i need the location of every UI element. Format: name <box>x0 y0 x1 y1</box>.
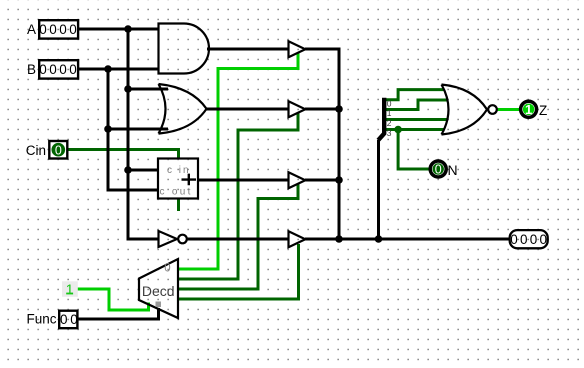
wire splitter bit2 to NOR input3 <box>384 118 448 121</box>
junction OR1/x128 <box>124 85 132 93</box>
wire OR input1 <box>128 88 168 91</box>
svg-text:A: A <box>27 22 36 37</box>
wire constant 1 to decoder enable (bright green) <box>77 289 149 310</box>
junction OR2/x108 <box>104 125 112 133</box>
svg-text:Decd: Decd <box>142 283 175 299</box>
svg-text:N: N <box>448 162 458 178</box>
output pin result <box>510 230 548 248</box>
wire buffer3 output <box>305 179 339 182</box>
svg-text:c in: c in <box>167 165 191 176</box>
wire splitter bit1 to NOR input2 <box>384 100 448 110</box>
wire OR input2 <box>108 128 168 131</box>
decoder select marker <box>156 302 162 308</box>
wire splitter bit3 to NOR input4 <box>384 128 444 131</box>
controlled buffer B1 <box>289 41 306 57</box>
junction adder1/x128 <box>124 166 132 174</box>
controlled buffer B3 <box>289 172 306 188</box>
svg-text:0: 0 <box>55 144 62 158</box>
controlled buffer B2 <box>289 101 306 117</box>
or-gate U2 <box>159 84 207 134</box>
input pin Cin <box>49 141 67 159</box>
junction buffer2 out/x339 <box>335 105 343 113</box>
wire bit3 branch to N pin <box>398 130 429 170</box>
nor-gate U5 <box>442 85 488 135</box>
wire decoder out3 to buffer4 enable <box>178 244 299 299</box>
constant 1 <box>62 281 78 297</box>
wire vertical A branch x=128 to NOT input <box>128 28 159 240</box>
svg-text:2: 2 <box>387 118 392 128</box>
output pin N <box>430 161 446 177</box>
input pin B <box>39 60 78 78</box>
wire input A row <box>78 28 159 31</box>
wire NOR output to Z pin (bright green) <box>497 108 519 111</box>
svg-text:B: B <box>27 62 36 77</box>
wire Func to decoder select <box>78 308 159 319</box>
svg-text:1: 1 <box>66 281 74 297</box>
wire adder c-out stub <box>177 199 180 212</box>
wire AND output to buffer1 <box>207 48 289 51</box>
junction result row/x378.5 <box>375 235 383 243</box>
junction A/x128 <box>124 25 132 33</box>
svg-text:c out: c out <box>160 187 193 198</box>
wire splitter feed vertical x=378.5 <box>377 140 380 239</box>
svg-text:0: 0 <box>435 163 442 177</box>
input pin Func <box>59 311 77 329</box>
controlled buffer B4 <box>289 231 306 247</box>
svg-text:1: 1 <box>525 102 532 117</box>
wire NOT output to buffer4 <box>187 238 289 241</box>
wire vertical B branch x=108 to adder input2 <box>108 68 158 191</box>
wire input B row <box>78 68 159 71</box>
wire decoder out1 to buffer2 enable <box>178 113 298 279</box>
junction result row/x339 <box>335 235 343 243</box>
svg-text:0: 0 <box>164 263 170 275</box>
svg-text:1: 1 <box>387 108 392 118</box>
adder U3 <box>158 159 198 199</box>
wire Cin net (dark green) <box>68 150 179 159</box>
wire splitter bit0 to NOR input1 <box>384 90 444 100</box>
decoder Decd <box>139 259 178 318</box>
wire adder output to buffer3 <box>198 179 289 182</box>
and-gate U1 <box>159 24 209 74</box>
junction buffer3 out/x339 <box>335 176 343 184</box>
wire decoder out2 to buffer3 enable <box>178 184 298 289</box>
svg-text:3: 3 <box>387 128 392 138</box>
not-gate U4 <box>159 231 178 247</box>
svg-text:Cin: Cin <box>26 143 46 158</box>
wire buffer1 output <box>305 48 339 51</box>
svg-text:0: 0 <box>387 98 392 108</box>
splitter spine <box>378 98 384 141</box>
wire OR output to buffer2 <box>206 108 289 111</box>
wire adder input1 <box>128 169 158 172</box>
junction bit3/N branch <box>394 126 402 134</box>
wire buffer4 output <box>305 238 339 241</box>
wire result row to output pin <box>339 238 509 241</box>
svg-text:Z: Z <box>539 103 547 118</box>
output pin Z <box>521 101 537 117</box>
input pin A <box>39 20 78 38</box>
svg-text:Func: Func <box>26 312 56 327</box>
wire decoder out0 to buffer1 enable (bright green) <box>178 53 298 269</box>
junction B/x108 <box>104 65 112 73</box>
wire buffer2 output <box>305 108 339 111</box>
wire bus collector vertical x=339 <box>338 48 341 240</box>
